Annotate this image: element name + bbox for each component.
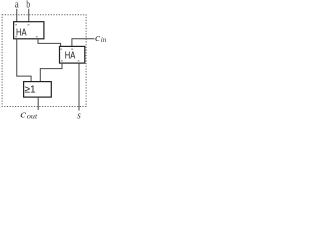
background (0, 0, 110, 120)
svg-text:c: c (20, 108, 26, 120)
wire input a (16, 9, 18, 22)
OR gate &#8805;1 (24, 82, 52, 98)
full-adder dashed boundary (2, 15, 86, 107)
svg-text:HA: HA (16, 28, 27, 39)
svg-text:s: s (77, 110, 81, 120)
svg-text:c: c (95, 33, 101, 44)
wire input c_in (72, 39, 95, 47)
wire HA1 carry to OR gate (17, 39, 31, 82)
HA1 pin mark s (36, 36, 38, 37)
HA2 pin mark a (60, 49, 62, 50)
svg-text:b: b (26, 0, 30, 11)
wire input b (28, 9, 30, 22)
HA1 pin mark a (15, 24, 17, 25)
HA2 pin mark c (61, 60, 63, 61)
HA1 pin mark b (28, 24, 30, 25)
half adder HA1 (14, 22, 44, 39)
half adder HA2 (60, 46, 85, 63)
svg-text:≥1: ≥1 (24, 84, 35, 95)
HA2 pin mark b (71, 49, 73, 50)
HA1 pin mark c (15, 36, 17, 37)
HA2 pin mark s (78, 60, 80, 61)
wire HA2 sum output s (78, 63, 80, 110)
svg-text:HA: HA (65, 51, 76, 62)
svg-text:out: out (27, 112, 38, 120)
svg-text:in: in (101, 36, 107, 44)
wire OR gate output c_out (37, 97, 39, 110)
wire HA2 carry to OR gate (40, 63, 62, 82)
wire HA1 sum to HA2 (38, 39, 61, 47)
